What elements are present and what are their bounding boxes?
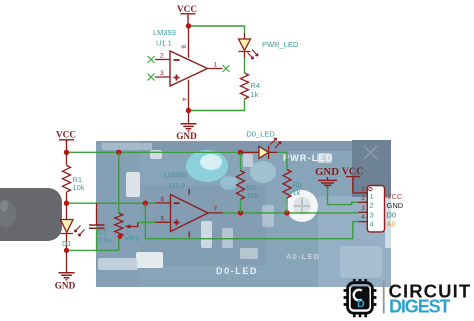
- svg-text:6: 6: [161, 196, 165, 203]
- VCC left symbol: [56, 130, 76, 153]
- svg-text:PWR_LED: PWR_LED: [262, 40, 299, 49]
- svg-text:3: 3: [370, 210, 374, 219]
- junction VCC rail / R1: [64, 150, 69, 155]
- silkscreen strip top-left: [102, 143, 152, 150]
- no-connect X pin3: [148, 74, 155, 81]
- svg-text:U1.2: U1.2: [170, 181, 186, 190]
- svg-text:10k: 10k: [73, 183, 85, 192]
- svg-text:4: 4: [361, 214, 365, 221]
- white component blobs: [126, 172, 140, 197]
- junction VCC rail / R2: [238, 150, 243, 155]
- D0_LED: [241, 129, 282, 159]
- svg-text:VCC: VCC: [177, 4, 197, 14]
- svg-text:3: 3: [361, 205, 365, 212]
- svg-text:2: 2: [160, 53, 164, 60]
- VCC symbol mid-right: [342, 167, 364, 193]
- node wire R1/D1 to pin6: [67, 202, 156, 204]
- junction node A to A0 riser: [143, 201, 148, 206]
- svg-text:D0_LED: D0_LED: [247, 129, 276, 138]
- svg-text:D0-LED: D0-LED: [216, 266, 258, 276]
- resistor R2: [237, 152, 259, 213]
- op-amp U1.2: [156, 170, 224, 237]
- A0 net: [145, 203, 358, 239]
- potentiometer VR1: [115, 152, 139, 250]
- svg-text:7: 7: [214, 206, 218, 213]
- svg-text:2: 2: [361, 195, 365, 202]
- wire LED to R4: [244, 58, 246, 73]
- svg-text:DIGEST: DIGEST: [389, 296, 451, 316]
- capacitor C1: [89, 203, 111, 250]
- no-connect X pin2: [148, 56, 155, 63]
- bright spot near D0 led: [250, 161, 276, 183]
- svg-text:1: 1: [361, 186, 365, 193]
- svg-text:PWR-LED: PWR-LED: [283, 153, 333, 163]
- trimpot white circle: [286, 190, 318, 222]
- sensor LED black package: [0, 188, 62, 241]
- junction top VCC: [186, 23, 191, 28]
- svg-text:GND: GND: [315, 166, 339, 178]
- junction bottom: [186, 108, 191, 113]
- svg-text:0.1u: 0.1u: [97, 236, 112, 245]
- svg-text:VCC: VCC: [387, 192, 403, 201]
- svg-text:4: 4: [180, 98, 187, 102]
- chip icon: [344, 279, 377, 317]
- svg-text:GND: GND: [176, 131, 197, 141]
- svg-text:5: 5: [161, 216, 165, 223]
- photodiode D1: [61, 203, 85, 250]
- svg-text:1k: 1k: [251, 90, 259, 99]
- svg-text:D: D: [357, 298, 365, 310]
- svg-text:1: 1: [214, 62, 218, 69]
- VCC top symbol: [177, 4, 197, 26]
- svg-text:U1.1: U1.1: [156, 39, 172, 48]
- ground lower-left: [55, 250, 76, 290]
- svg-text:A0-LED: A0-LED: [286, 252, 320, 261]
- svg-text:8: 8: [180, 45, 187, 49]
- connector J1: [359, 186, 404, 232]
- wire D0_LED to R3: [277, 152, 287, 169]
- svg-text:3: 3: [160, 70, 164, 77]
- output net pin7 to connector D0: [223, 212, 359, 214]
- svg-text:VCC: VCC: [342, 167, 364, 178]
- aqua reflection patch: [186, 150, 228, 182]
- svg-text:GND: GND: [55, 281, 76, 291]
- junction output / R3: [284, 210, 289, 215]
- pin header dark block: [352, 140, 391, 197]
- junction output / R2: [238, 210, 243, 215]
- wire wiper to pin5: [138, 221, 156, 223]
- svg-text:LM393: LM393: [164, 170, 187, 179]
- ground top circuit: [176, 111, 197, 142]
- svg-text:1k: 1k: [293, 188, 301, 197]
- no-connect X pin1: [223, 65, 230, 72]
- PCB board: [96, 141, 391, 287]
- resistor R1: [63, 152, 85, 203]
- svg-text:D1: D1: [62, 239, 72, 248]
- svg-text:4: 4: [370, 220, 374, 229]
- svg-text:A0: A0: [387, 220, 396, 229]
- junction R1/D1 node: [64, 201, 69, 206]
- svg-text:VCC: VCC: [56, 130, 76, 140]
- VCC rail: [67, 151, 241, 153]
- svg-text:2: 2: [370, 201, 374, 210]
- resistor R3: [283, 170, 302, 213]
- resistor R4: [241, 73, 261, 99]
- background photo of flame sensor module: [0, 140, 391, 287]
- svg-text:1: 1: [370, 192, 374, 201]
- svg-text:10k: 10k: [247, 191, 259, 200]
- PWR_LED: [239, 33, 299, 59]
- svg-text:D0: D0: [387, 210, 397, 219]
- wire VCC to PWR_LED: [189, 26, 245, 33]
- svg-text:GND: GND: [387, 201, 404, 210]
- op-amp U1.1: [153, 26, 223, 111]
- wire GND rail lower-left: [67, 249, 119, 251]
- svg-text:LM393: LM393: [153, 28, 176, 37]
- svg-text:VR1: VR1: [125, 233, 140, 242]
- wire R4 to GND rail: [189, 99, 245, 111]
- GND symbol mid-right: [315, 166, 359, 205]
- junction D1 cathode / GND rail: [64, 248, 69, 253]
- light strip right edge: [385, 198, 391, 248]
- svg-text:R4: R4: [251, 81, 261, 90]
- junction VCC rail / VR1: [116, 150, 121, 155]
